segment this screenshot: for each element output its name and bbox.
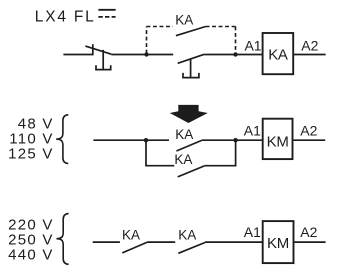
wire from A2 (bottom) — [294, 241, 326, 243]
node junction right (middle) — [233, 138, 237, 142]
wire parallel branch right — [204, 140, 235, 166]
wire left lead (top circuit) — [63, 54, 92, 56]
svg-text:440 V: 440 V — [8, 246, 53, 263]
svg-text:KA: KA — [178, 228, 196, 243]
contact KA NO upper — [176, 140, 201, 151]
svg-text:A2: A2 — [300, 224, 317, 240]
wire to relay (middle) — [202, 139, 263, 141]
wire dashed branch right vertical — [235, 27, 237, 54]
wire dashed branch left vertical — [146, 27, 148, 54]
limit switch NC contact pole 1 — [85, 44, 111, 55]
wire dashed branch top left — [147, 26, 173, 28]
wire dashed branch top right — [206, 26, 236, 28]
svg-text:KA: KA — [175, 127, 193, 142]
wire from A2 (middle) — [293, 139, 326, 141]
contactor coil KM box (middle) — [263, 119, 293, 159]
wire parallel branch left — [146, 140, 174, 166]
svg-text:KA: KA — [122, 227, 140, 242]
svg-text:KA: KA — [174, 152, 192, 167]
svg-text:125 V: 125 V — [8, 146, 53, 163]
node junction left (middle) — [144, 138, 148, 142]
svg-text:A1: A1 — [244, 224, 261, 240]
limit switch NO contact pole 2 — [178, 54, 205, 63]
svg-text:A2: A2 — [301, 37, 318, 53]
svg-text:KA: KA — [175, 13, 193, 28]
plunger actuator of NC contact — [96, 50, 111, 70]
wire left lead (bottom circuit) — [93, 241, 120, 243]
wire left lead (middle circuit) — [93, 139, 169, 141]
wire to relay — [204, 54, 262, 56]
transformation arrow — [170, 105, 208, 123]
contactor coil KM box (bottom) — [263, 221, 294, 263]
svg-text:KM: KM — [267, 235, 289, 252]
DC supply symbol — [98, 10, 115, 17]
contact KA NO second — [178, 243, 205, 254]
wire between contacts — [147, 241, 175, 243]
relay coil KA box — [263, 33, 294, 74]
wire to relay (bottom) — [205, 241, 263, 243]
contact KA NO first — [122, 242, 147, 253]
svg-text:LX4 FL: LX4 FL — [35, 8, 96, 25]
svg-text:A1: A1 — [244, 37, 261, 53]
svg-text:A2: A2 — [300, 123, 317, 139]
plunger actuator of NO contact — [183, 59, 199, 78]
svg-text:A1: A1 — [244, 123, 261, 139]
wire between poles — [111, 54, 173, 56]
node junction left — [144, 52, 148, 56]
contact KA NO lower — [178, 166, 205, 177]
svg-text:KM: KM — [267, 134, 289, 151]
node junction right — [233, 52, 237, 56]
brace (middle voltages) — [56, 115, 68, 164]
wire from A2 — [293, 54, 325, 56]
svg-text:KA: KA — [268, 46, 288, 63]
brace (bottom voltages) — [57, 214, 69, 265]
contact KA NO in dashed branch — [176, 27, 206, 36]
